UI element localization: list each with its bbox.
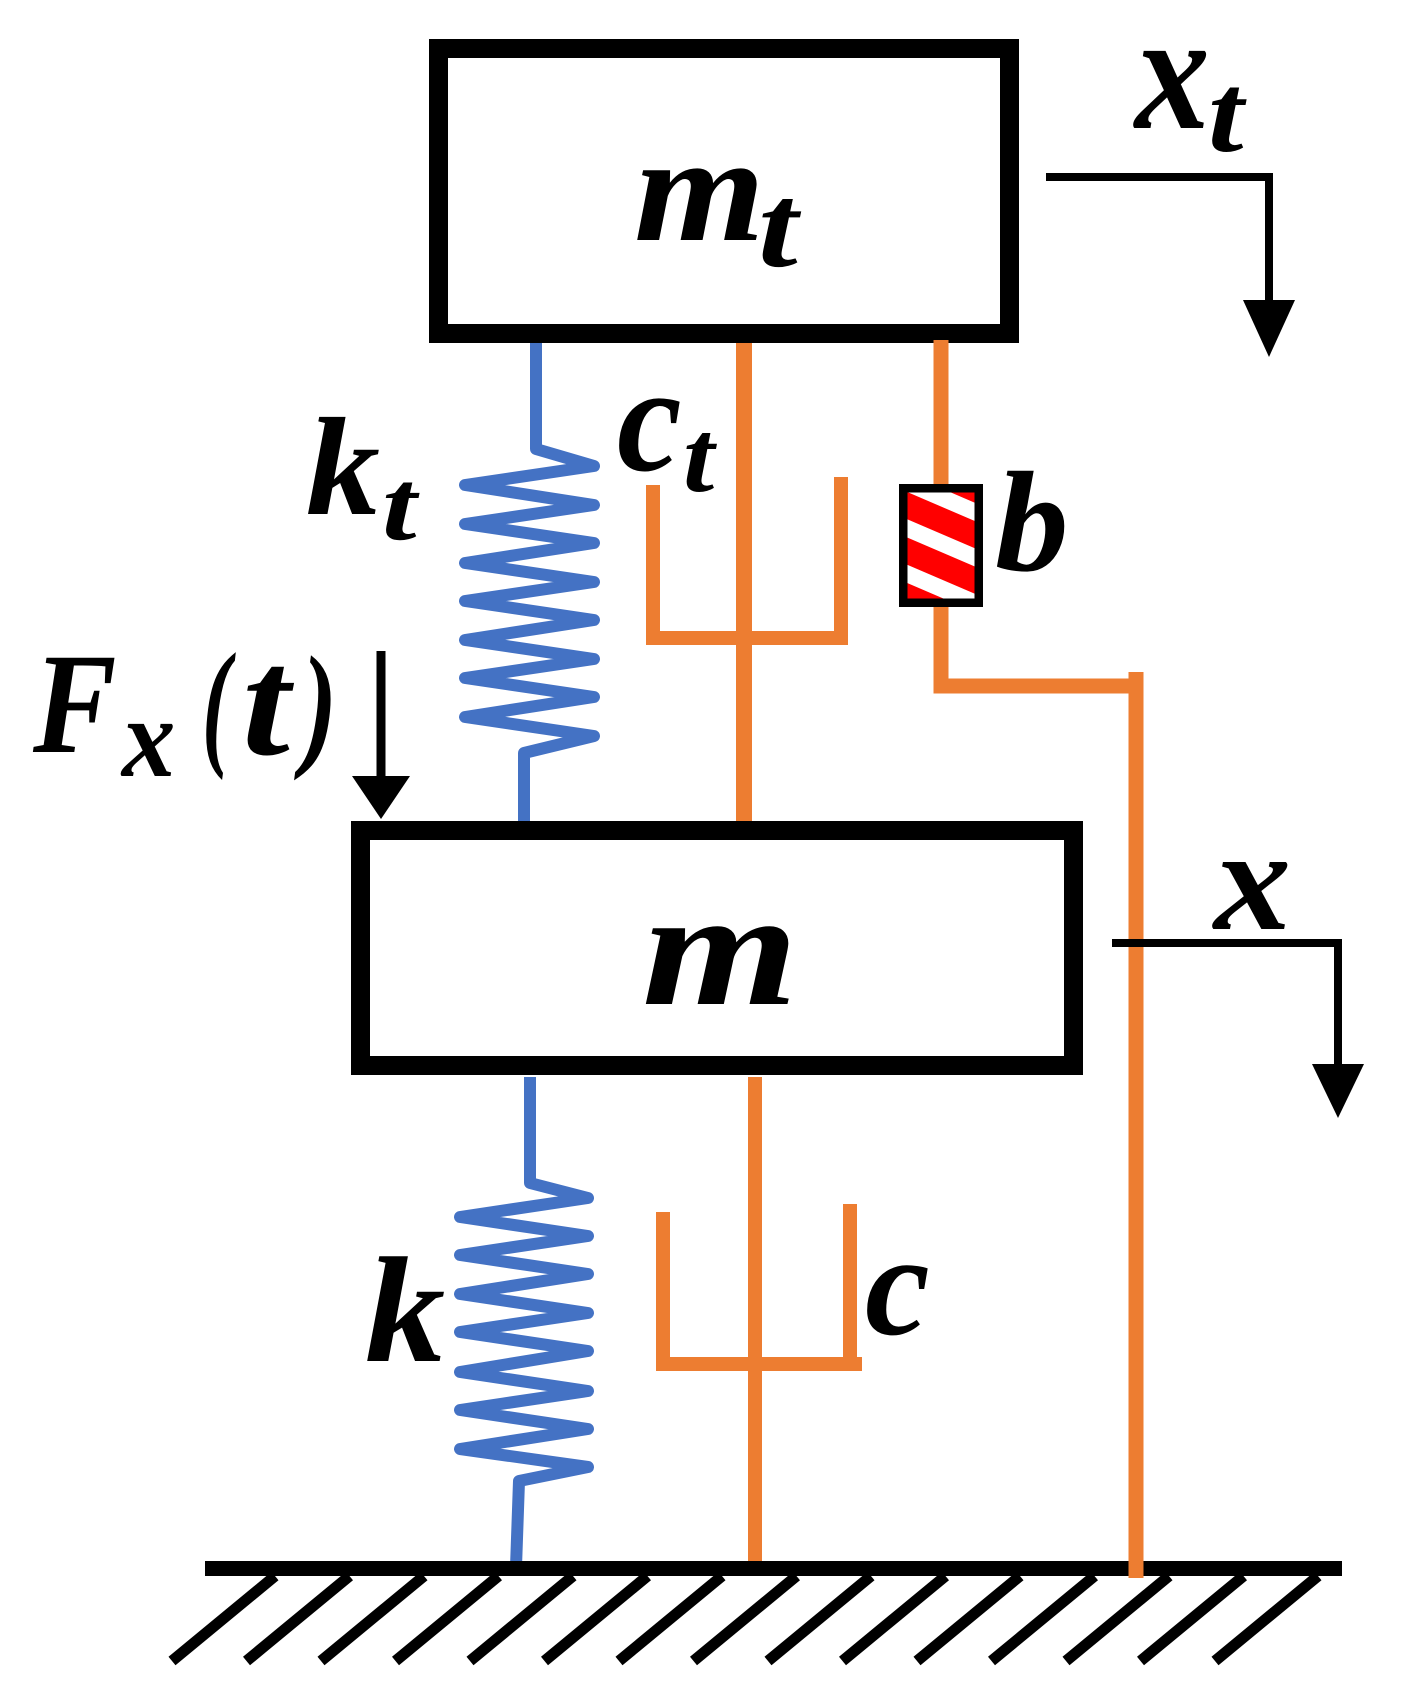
svg-text:t: t [242, 617, 295, 788]
damper b box [900, 457, 985, 630]
wire: damper b rod bottom [934, 600, 949, 693]
svg-text:t: t [758, 161, 801, 292]
wire: long vertical from elbow down to ground [1129, 672, 1144, 1561]
damper c rod [748, 1077, 762, 1562]
svg-text:m: m [634, 105, 765, 274]
mass mt box [439, 49, 1010, 334]
svg-text:b: b [995, 444, 1069, 602]
svg-text:t: t [1208, 51, 1247, 175]
svg-text:t: t [382, 450, 420, 562]
svg-text:x: x [1133, 0, 1210, 165]
wire: elbow horizontal from b to x reference line [934, 679, 1144, 694]
arrow xt (reference line + arrowhead) [1046, 177, 1295, 357]
spring kt [465, 343, 594, 821]
wire overlay: orange line over ground [1129, 1559, 1144, 1578]
svg-text:k: k [306, 391, 380, 546]
arrow F (force arrow onto mass m) [352, 651, 410, 819]
mass m box [361, 831, 1074, 1066]
damper ct cup [646, 477, 848, 645]
damper c cup [656, 1204, 862, 1371]
svg-text:F: F [32, 625, 116, 784]
svg-text:t: t [683, 400, 717, 514]
arrow x (reference line + arrowhead) [1112, 943, 1364, 1118]
damper ct rod [736, 343, 752, 821]
spring k [460, 1077, 588, 1567]
svg-text:k: k [365, 1226, 445, 1394]
ground hatching [172, 1576, 1318, 1661]
svg-text:x: x [1212, 800, 1291, 961]
svg-text:m: m [642, 857, 798, 1040]
damper b rod top [934, 340, 949, 492]
ground line [205, 1561, 1342, 1576]
svg-text:c: c [617, 335, 682, 503]
svg-text:x: x [120, 675, 175, 800]
svg-text:c: c [865, 1204, 930, 1366]
